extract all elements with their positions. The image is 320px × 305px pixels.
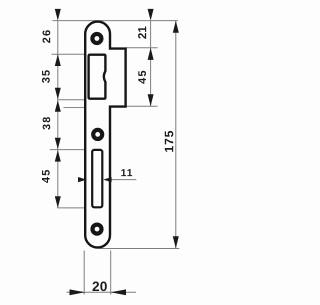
arrow: right chain at 106.2 (down): [148, 94, 154, 106]
wire: stray line left of plate: [64, 107, 85, 109]
screw hole top: [92, 34, 101, 43]
arrow: 11 right (left-pointing): [103, 177, 111, 182]
label 35: [42, 70, 50, 83]
arrow: 20 right (left-pointing): [111, 289, 126, 295]
wire: cutout-bottom extension line (35/38): [57, 99, 88, 101]
label 21: [138, 27, 146, 39]
wire: left dimension line: [57, 21, 59, 208]
arrow: right chain top (down): [148, 9, 154, 21]
wire: bottom dimension line (20): [67, 291, 137, 293]
arrow: right chain at 47.8 (up): [148, 48, 154, 60]
arrow: 11 left (right-pointing): [78, 177, 87, 182]
arrow: left chain bowtie at 99.7 (down): [55, 88, 61, 99]
label 20: [93, 282, 107, 292]
wire: bottom-left extension line: [83, 251, 85, 295]
wire: right dimension line (21/45): [150, 21, 152, 107]
arrow: left chain top (down): [55, 9, 61, 21]
arrow: 20 left (right-pointing): [70, 289, 86, 295]
arrow: 175 bottom (down): [173, 236, 179, 248]
arrow: left chain bowtie at 99.7 (up): [55, 100, 61, 112]
wire: step-bottom extension line (45 right): [126, 105, 158, 107]
wire: cutout-top extension line (26/35): [52, 53, 89, 55]
lower slot: [92, 150, 102, 207]
label 26: [43, 30, 51, 43]
label 11: [121, 169, 132, 176]
wire: top extension line: [53, 20, 178, 22]
screw hole bottom: [93, 225, 102, 234]
arrow: left chain at 54 (up): [55, 54, 61, 66]
wire: step-top extension line (21/45 right): [126, 47, 158, 49]
screw hole middle: [93, 130, 102, 139]
label 45: [42, 170, 50, 183]
wire: slot-top extension line (38/45): [50, 149, 92, 151]
arrow: left chain bowtie at 149.6 (down): [55, 138, 61, 149]
wire: 175 dimension line: [175, 21, 177, 249]
label 38: [43, 117, 51, 130]
arrow: left chain bottom (down): [55, 196, 61, 208]
arrow: left chain bowtie at 149.6 (up): [55, 150, 61, 162]
label 45: [138, 71, 146, 84]
label 175: [165, 131, 174, 152]
latch cutout with notch: [89, 55, 106, 99]
wire: 11 dimension line: [87, 179, 137, 181]
wire: bottom-right extension line: [110, 251, 112, 295]
arrow: 175 top (up): [173, 21, 179, 33]
wire: plate-bottom extension line (175): [100, 248, 180, 250]
strike plate outline: [85, 22, 125, 248]
wire: slot-bottom extension line: [57, 207, 93, 209]
